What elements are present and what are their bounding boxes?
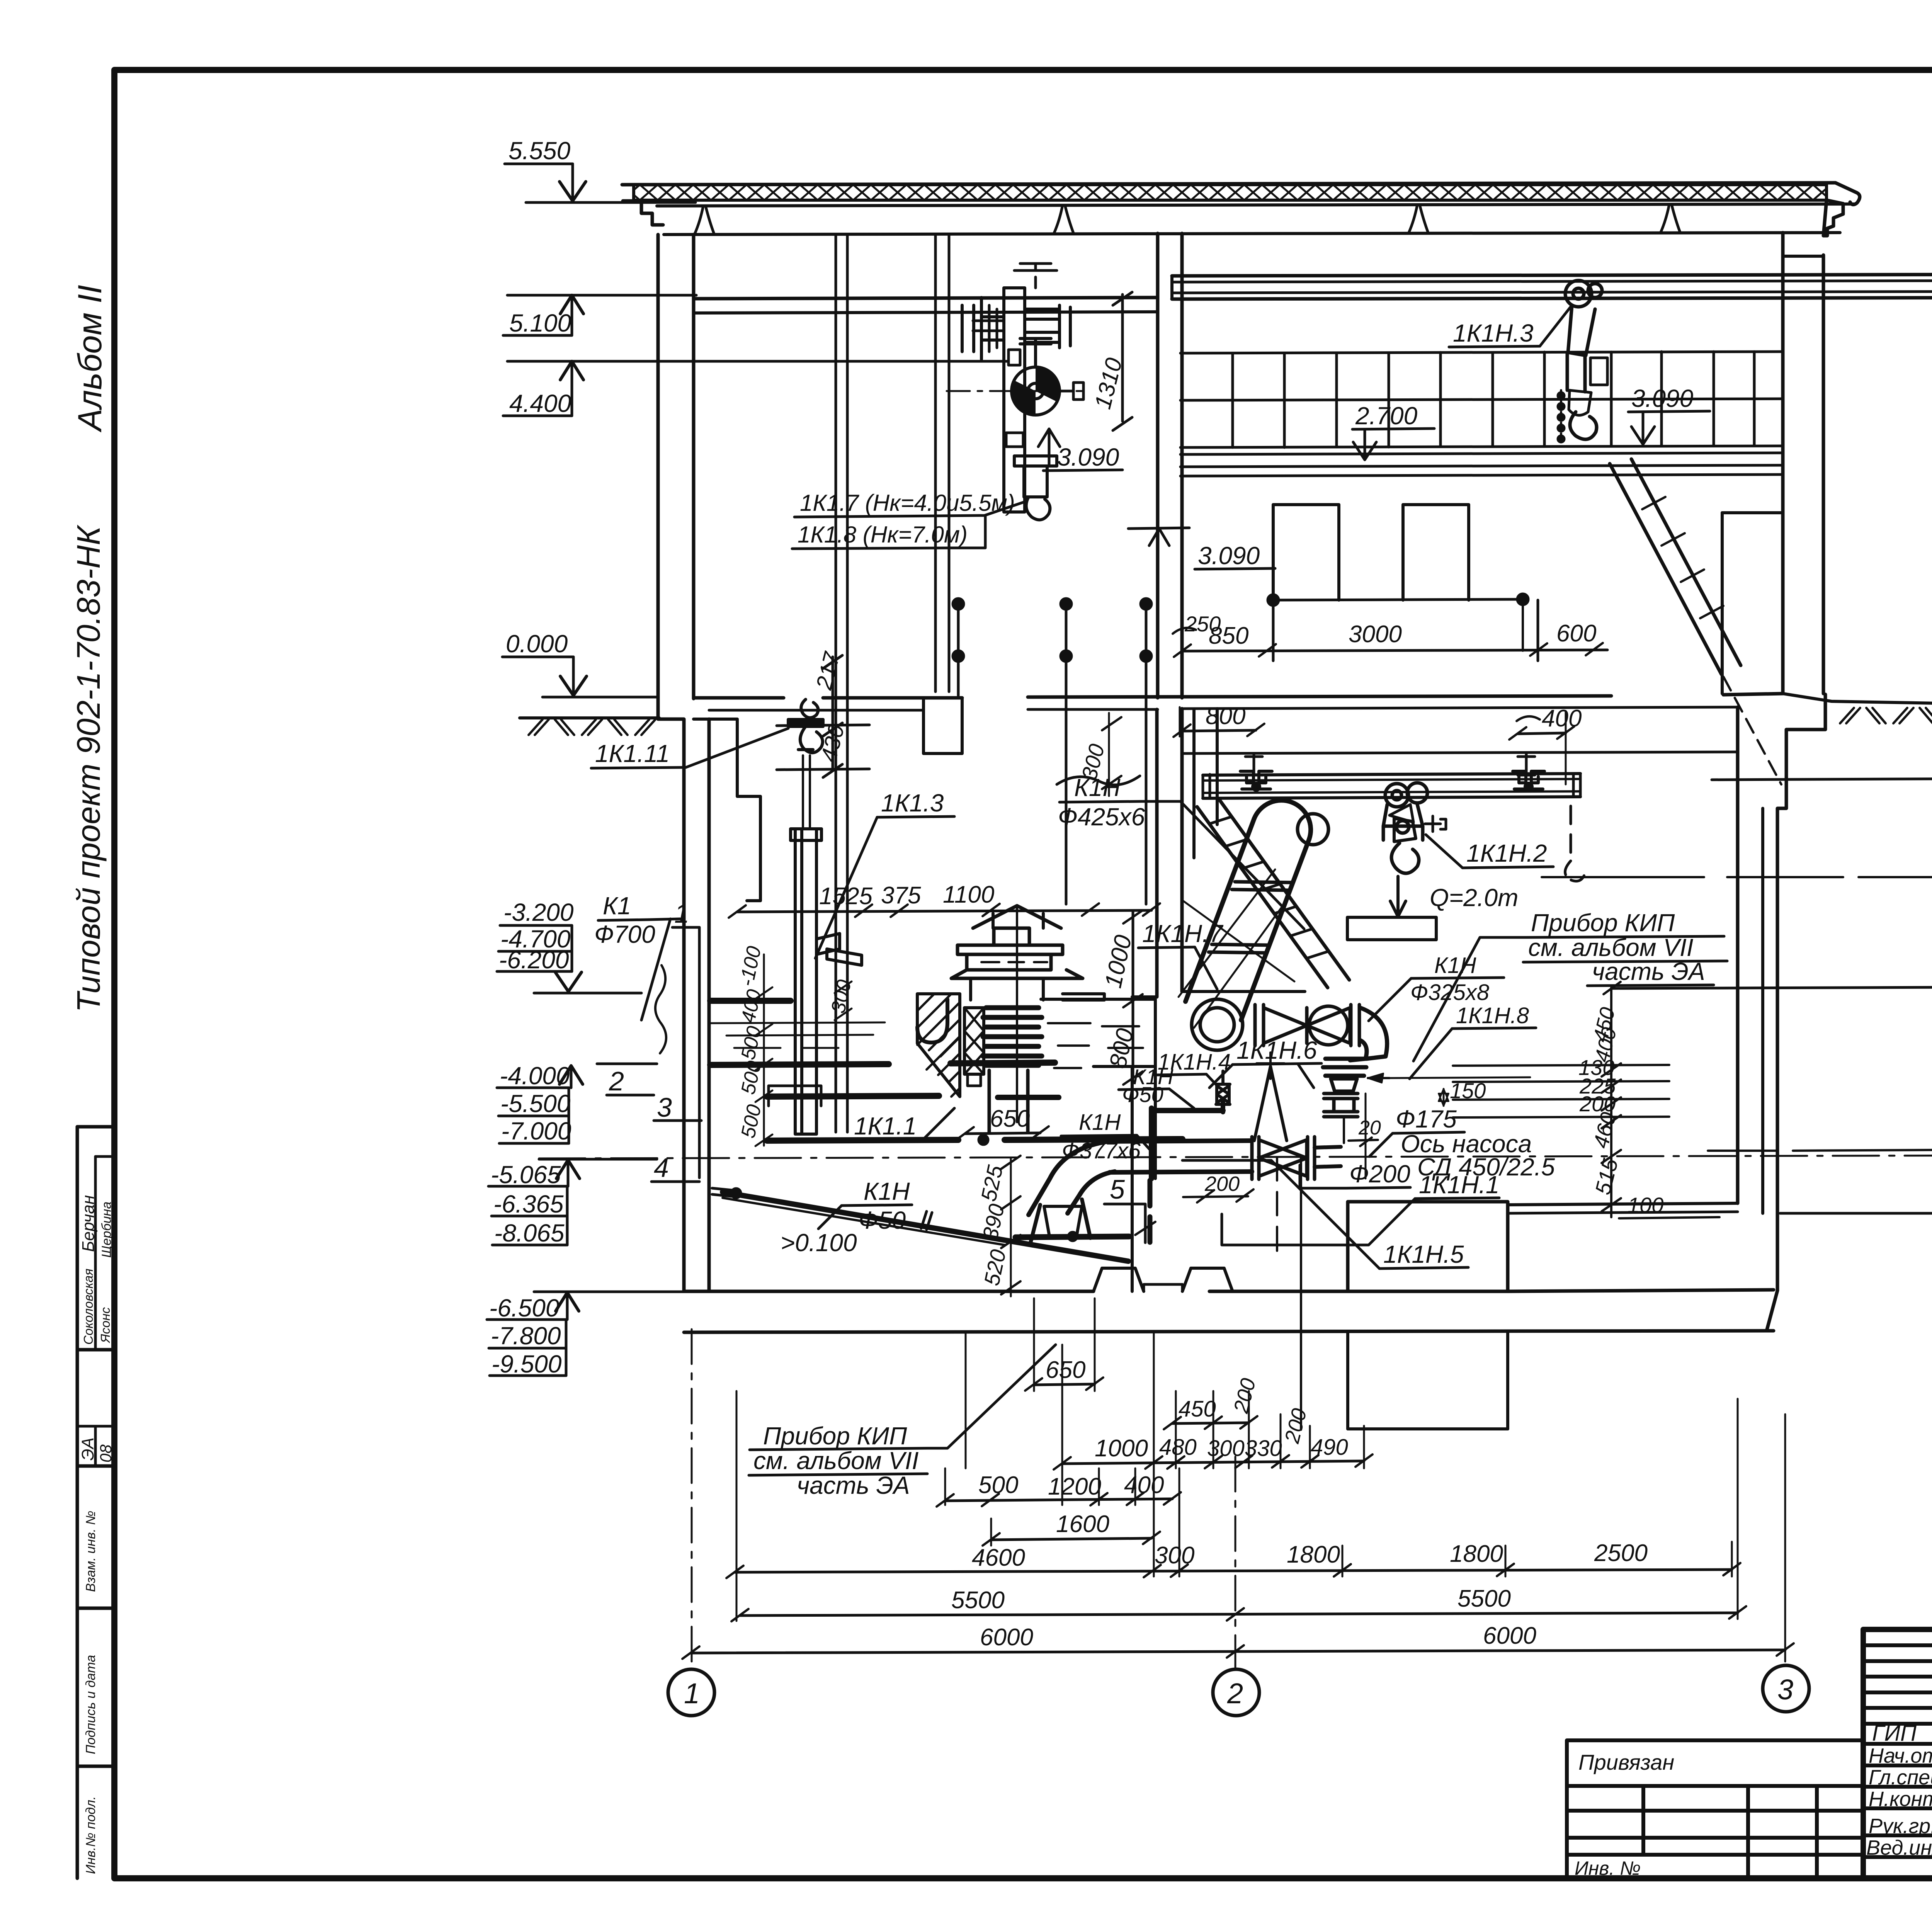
svg-text:2: 2 bbox=[1227, 1677, 1243, 1709]
svg-text:-6.365: -6.365 bbox=[493, 1190, 564, 1218]
svg-text:Берчан: Берчан bbox=[79, 1195, 98, 1252]
grate 1K1.3 bbox=[791, 755, 862, 1134]
column bubbles bbox=[668, 1665, 1809, 1716]
svg-text:см. альбом VII: см. альбом VII bbox=[753, 1447, 919, 1475]
1K1N.1 bbox=[1222, 1171, 1500, 1245]
dim 200 at drain corner bbox=[1183, 1172, 1253, 1202]
svg-text:Соколовская: Соколовская bbox=[81, 1269, 95, 1345]
1K1N.4 bbox=[1155, 1049, 1231, 1087]
interior wall steps left side below ground bbox=[694, 719, 760, 901]
svg-text:4: 4 bbox=[654, 1153, 669, 1183]
pump-room ceiling beam bbox=[1132, 992, 1305, 997]
svg-text:1000: 1000 bbox=[1100, 933, 1137, 990]
svg-text:Рук.гр.: Рук.гр. bbox=[1869, 1815, 1932, 1838]
chamber box right of valve with water dashes bbox=[1041, 999, 1155, 1068]
guy lines over pipe bbox=[1179, 869, 1294, 1028]
privyazan table bbox=[1567, 1740, 1863, 1879]
svg-text:-5.065: -5.065 bbox=[491, 1161, 561, 1189]
vertical level dim chain at grate bbox=[735, 944, 856, 1146]
svg-text:500: 500 bbox=[737, 1102, 766, 1140]
funnel cone on axis bbox=[1254, 1053, 1287, 1141]
svg-text:К1Н: К1Н bbox=[864, 1177, 910, 1205]
roof hatched band bbox=[634, 185, 1827, 200]
svg-text:20: 20 bbox=[1358, 1117, 1381, 1139]
1K1N.6 bbox=[1209, 1036, 1321, 1088]
K1N F425x6 bbox=[1057, 774, 1304, 929]
right eave step bbox=[1823, 200, 1843, 236]
svg-text:Ясонс: Ясонс bbox=[98, 1307, 112, 1344]
svg-text:2500: 2500 bbox=[1594, 1540, 1648, 1566]
svg-text:Ф700: Ф700 bbox=[594, 920, 655, 948]
wavy break line at wall bbox=[655, 965, 666, 1053]
dims 217 and 430 at hook bbox=[777, 649, 869, 777]
svg-text:390: 390 bbox=[978, 1202, 1009, 1242]
svg-text:1К1Н.5: 1К1Н.5 bbox=[1383, 1240, 1464, 1268]
svg-text:490: 490 bbox=[1311, 1435, 1348, 1460]
svg-text:Альбом II: Альбом II bbox=[71, 285, 109, 433]
svg-text:3: 3 bbox=[657, 1092, 672, 1122]
right wall bbox=[1781, 233, 1785, 694]
svg-text:1К1Н.2: 1К1Н.2 bbox=[1466, 839, 1547, 867]
5 marker bbox=[1104, 1174, 1155, 1243]
hook 1K1.11 above grate bbox=[788, 699, 823, 753]
svg-text:330: 330 bbox=[1245, 1436, 1282, 1461]
hanging anchor rods with dots bbox=[953, 599, 1151, 904]
svg-text:Q=2.0т: Q=2.0т bbox=[1430, 884, 1518, 912]
step under grate bbox=[769, 1086, 821, 1106]
right -0.850 bbox=[1712, 728, 1932, 784]
svg-text:-5.500: -5.500 bbox=[500, 1090, 571, 1117]
left stack -3.200 bbox=[497, 898, 641, 993]
sloped drain pipe K1N F50 bbox=[712, 1188, 1128, 1261]
svg-text:375: 375 bbox=[881, 882, 921, 909]
narrow rows bbox=[1863, 1643, 1932, 1647]
svg-text:К1Н: К1Н bbox=[1079, 1110, 1121, 1135]
level 5.100 bbox=[503, 295, 696, 337]
K1N F50 drain: L-shaped thick pipe bbox=[1151, 1108, 1223, 1113]
left stack -4.000 bbox=[497, 1062, 657, 1145]
svg-text:1800: 1800 bbox=[1450, 1541, 1503, 1567]
svg-text:200: 200 bbox=[1229, 1376, 1260, 1416]
svg-text:Ф425х6: Ф425х6 bbox=[1058, 803, 1145, 831]
svg-text:1К1Н.3: 1К1Н.3 bbox=[1453, 319, 1534, 347]
water level lines in channel bbox=[710, 1022, 885, 1023]
hoist 1K1N.3 drawing bbox=[1558, 281, 1607, 442]
svg-text:Щербина: Щербина bbox=[99, 1202, 114, 1258]
svg-text:Прибор КИП: Прибор КИП bbox=[763, 1422, 907, 1450]
left outer wall bbox=[658, 699, 684, 1291]
svg-text:ГИП: ГИП bbox=[1872, 1721, 1917, 1746]
channel slab edge right of valve bbox=[1063, 994, 1104, 1000]
svg-text:1К1Н.7: 1К1Н.7 bbox=[1142, 920, 1224, 947]
svg-text:5500: 5500 bbox=[951, 1587, 1005, 1614]
underground ceiling slab bottom bbox=[1182, 752, 1738, 753]
650 dim at pump left bbox=[957, 1105, 1049, 1139]
svg-text:1К1.1: 1К1.1 bbox=[854, 1112, 917, 1140]
role labels bbox=[1866, 1721, 1932, 1859]
floor line right of pedestal bbox=[1508, 1203, 1738, 1205]
level bars 2,3,4 bbox=[767, 1096, 939, 1097]
K1 F700 bbox=[594, 892, 680, 1020]
svg-text:2.700: 2.700 bbox=[1355, 402, 1418, 430]
suction valve on pump axis bbox=[1252, 1137, 1315, 1179]
svg-text:1800: 1800 bbox=[1287, 1541, 1340, 1568]
svg-text:650: 650 bbox=[1046, 1357, 1085, 1383]
K1 inlet pipe thick walls bbox=[710, 998, 791, 1004]
hanging rod pairs in left hall bbox=[835, 236, 837, 1132]
row 5500 5500 bbox=[731, 1585, 1746, 1621]
3.090 A (left) bbox=[1038, 429, 1122, 471]
K1N F50 left bbox=[818, 1177, 912, 1234]
row 650 bbox=[1025, 1357, 1103, 1391]
svg-text:6000: 6000 bbox=[980, 1624, 1033, 1651]
1K1N.7 bbox=[1138, 920, 1224, 989]
trolleys on underground monorail bbox=[1240, 753, 1544, 790]
stair diagonal bbox=[1610, 464, 1721, 674]
left eave step bbox=[623, 201, 663, 225]
svg-text:3.090: 3.090 bbox=[1198, 542, 1260, 570]
svg-text:480: 480 bbox=[1159, 1435, 1197, 1460]
svg-text:-100: -100 bbox=[735, 944, 765, 988]
bottom slab bbox=[684, 1290, 1094, 1293]
1K1N.2 bbox=[1426, 835, 1553, 868]
dim 3.090 under valve bbox=[1128, 528, 1189, 546]
pump SD450 at bottom bbox=[1015, 1141, 1129, 1244]
right wall of underground bbox=[1736, 707, 1740, 1203]
right -1.870 bbox=[1542, 824, 1932, 877]
svg-text:Гл.спец.: Гл.спец. bbox=[1869, 1766, 1932, 1789]
level 0.000 bbox=[502, 630, 657, 697]
svg-text:217: 217 bbox=[811, 649, 845, 692]
svg-text:5.100: 5.100 bbox=[509, 309, 571, 337]
1K1.7 / 1K1.8 bbox=[792, 490, 1023, 549]
svg-text:1К1.7 (Нк=4.0и5.5м): 1К1.7 (Нк=4.0и5.5м) bbox=[800, 490, 1015, 516]
1K1N.5 bbox=[1182, 1160, 1468, 1269]
grid dash-dot verticals bbox=[692, 1329, 1235, 1668]
svg-text:-6.500: -6.500 bbox=[489, 1294, 560, 1322]
3.090 C (right) bbox=[1628, 384, 1710, 444]
svg-text:3.090: 3.090 bbox=[1057, 443, 1119, 471]
svg-text:500: 500 bbox=[737, 1024, 766, 1061]
two door openings in back wall bbox=[1273, 505, 1339, 600]
svg-text:1: 1 bbox=[684, 1677, 700, 1709]
left stack -6.500 bbox=[487, 1292, 684, 1378]
svg-text:Инв. №: Инв. № bbox=[1575, 1857, 1641, 1879]
left hall beam bbox=[694, 298, 1158, 299]
svg-text:часть ЭА: часть ЭА bbox=[1592, 957, 1705, 985]
row 450 / 200rot bbox=[1164, 1376, 1260, 1429]
vertical dims 1000 800 near centre wall bbox=[1100, 910, 1143, 1085]
hatched wall wedge left bbox=[917, 994, 960, 1097]
svg-text:2: 2 bbox=[609, 1066, 624, 1096]
slab downstand at hatch opening bbox=[923, 698, 962, 753]
pump pedestal bbox=[1348, 1202, 1508, 1291]
Pribor KIP upper right bbox=[1413, 909, 1727, 1061]
svg-text:Подпись и дата: Подпись и дата bbox=[83, 1655, 98, 1754]
svg-text:430: 430 bbox=[816, 722, 849, 765]
svg-text:200: 200 bbox=[1280, 1406, 1311, 1446]
svg-text:525: 525 bbox=[976, 1163, 1007, 1203]
right stack -5.605 bbox=[1780, 1211, 1932, 1285]
discharge vertical pipe from pump to valve 1K1N.4 bbox=[1216, 1071, 1230, 1112]
svg-text:5500: 5500 bbox=[1458, 1585, 1511, 1612]
benching bumps bbox=[1094, 1268, 1144, 1291]
650 dim near 1K1.1 bbox=[0, 0, 2, 2]
svg-text:515: 515 bbox=[1590, 1156, 1623, 1197]
F175 bbox=[1369, 1105, 1464, 1156]
elbow down to 1K1N.8 bbox=[1350, 1008, 1387, 1060]
svg-text:Ф377х6: Ф377х6 bbox=[1062, 1138, 1141, 1163]
signature rows bbox=[1863, 1722, 1932, 1726]
1K1N.8 bbox=[1410, 1003, 1536, 1079]
right wall pilaster below windows bbox=[1721, 513, 1724, 694]
left wall bbox=[656, 235, 660, 699]
row 500 1200 400 bbox=[937, 1472, 1181, 1507]
svg-text:500: 500 bbox=[978, 1472, 1018, 1498]
phantom hook at right bbox=[1570, 806, 1572, 860]
level marker numbers 1-4 leaders bbox=[607, 898, 701, 1183]
svg-text:1: 1 bbox=[674, 898, 689, 929]
svg-text:1600: 1600 bbox=[1056, 1511, 1109, 1537]
svg-text:Инв.№ подл.: Инв.№ подл. bbox=[83, 1796, 98, 1874]
underground monorail beam (pump hall) bbox=[1203, 774, 1580, 775]
valve 1K1.7/1K1.8 assembly upper hall bbox=[947, 264, 1083, 520]
top dim row 250 850 3000 600 bbox=[1173, 600, 1607, 661]
ceiling slab bbox=[657, 204, 1855, 206]
svg-text:1200: 1200 bbox=[1048, 1473, 1101, 1500]
K1N F325x8 bbox=[1369, 953, 1504, 1021]
svg-text:Привязан: Привязан bbox=[1578, 1750, 1674, 1774]
svg-text:Ф50: Ф50 bbox=[859, 1206, 906, 1234]
monorail upper hall bbox=[1172, 274, 1932, 276]
svg-text:1К1.8 (Нк=7.0м): 1К1.8 (Нк=7.0м) bbox=[798, 522, 968, 548]
svg-text:08: 08 bbox=[97, 1444, 115, 1463]
dim 1310 bbox=[1090, 292, 1132, 430]
centre wall bbox=[1156, 233, 1160, 698]
svg-text:850: 850 bbox=[1209, 622, 1248, 649]
dim 300 under floor left bbox=[1077, 713, 1121, 796]
svg-text:4600: 4600 bbox=[972, 1544, 1025, 1571]
projection verticals bbox=[736, 1298, 1785, 1662]
svg-text:600: 600 bbox=[1556, 620, 1596, 647]
1K1.11 bbox=[591, 728, 788, 768]
window band right hall bbox=[1180, 352, 1783, 454]
svg-text:0.000: 0.000 bbox=[506, 630, 568, 658]
svg-text:450: 450 bbox=[1179, 1396, 1216, 1422]
svg-text:1100: 1100 bbox=[943, 881, 994, 908]
1K1.3 bbox=[815, 789, 954, 958]
slab V-joints bbox=[695, 206, 714, 234]
svg-text:1К1.11: 1К1.11 bbox=[595, 740, 670, 767]
1K1N.3 bbox=[1449, 305, 1572, 347]
svg-text:-3.200: -3.200 bbox=[503, 898, 574, 926]
spring screw element bbox=[964, 1008, 984, 1086]
centre dividing wall below ground bbox=[1155, 709, 1159, 997]
valve on stand over channel bbox=[951, 906, 1083, 1122]
svg-text:5.550: 5.550 bbox=[509, 137, 571, 165]
elbow from F175 valve into pump: right side assembly bbox=[1323, 1059, 1366, 1143]
svg-text:-7.800: -7.800 bbox=[491, 1322, 561, 1350]
svg-text:-9.500: -9.500 bbox=[492, 1350, 562, 1378]
svg-text:3000: 3000 bbox=[1349, 621, 1402, 648]
svg-text:Взам. инв. №: Взам. инв. № bbox=[83, 1511, 98, 1592]
svg-text:4.400: 4.400 bbox=[509, 389, 571, 417]
K1N F377x6 bbox=[1061, 1110, 1152, 1163]
bellows compensator bbox=[983, 1008, 1042, 1065]
svg-text:6000: 6000 bbox=[1483, 1622, 1536, 1649]
svg-text:Вед.инж.: Вед.инж. bbox=[1866, 1836, 1932, 1859]
svg-text:-6.200: -6.200 bbox=[499, 946, 569, 974]
svg-text:650: 650 bbox=[990, 1105, 1030, 1132]
svg-text:Ф175: Ф175 bbox=[1396, 1105, 1457, 1133]
svg-text:300: 300 bbox=[1155, 1542, 1194, 1569]
svg-text:400: 400 bbox=[1124, 1472, 1164, 1498]
svg-text:400: 400 bbox=[1542, 705, 1582, 732]
pump axis dash-dot bbox=[539, 1155, 1932, 1158]
row 1000 480 300 330 200 490 bbox=[1054, 1406, 1372, 1469]
left stack -5.065 bbox=[488, 1159, 657, 1247]
left strip cells bbox=[76, 1127, 79, 1878]
row 4600 300 1800 1800 2500 bbox=[726, 1540, 1740, 1578]
big diagonal pipe K1N F425x6 bbox=[1185, 800, 1311, 1020]
dim 800 under slab + 400 right bbox=[1173, 703, 1582, 784]
vertical dims 525 390 520 at pump suction bbox=[976, 1156, 1020, 1296]
dims 1525 375 1100 bbox=[729, 881, 1160, 918]
svg-text:Нач.отд.: Нач.отд. bbox=[1869, 1744, 1932, 1767]
right stack -4.990 bbox=[1708, 1069, 1932, 1155]
svg-text:-8.065: -8.065 bbox=[494, 1219, 565, 1247]
svg-text:-7.000: -7.000 bbox=[501, 1117, 571, 1145]
Pribor KIP lower bbox=[749, 1345, 1056, 1499]
F200 bbox=[1300, 1160, 1410, 1188]
svg-text:часть ЭА: часть ЭА bbox=[797, 1471, 910, 1499]
svg-text:400: 400 bbox=[737, 987, 766, 1025]
level 5.550 bbox=[505, 137, 696, 202]
svg-text:Типовой проект 902-1-70.83-НК: Типовой проект 902-1-70.83-НК bbox=[70, 524, 107, 1012]
svg-text:-4.000: -4.000 bbox=[500, 1062, 570, 1090]
row 6000 6000 bbox=[682, 1622, 1794, 1659]
suction pipe horizontals bbox=[1102, 1141, 1252, 1141]
svg-text:1К1Н.8: 1К1Н.8 bbox=[1456, 1003, 1529, 1028]
svg-text:300: 300 bbox=[1207, 1436, 1245, 1461]
pipe from volute to right: flanges and valve body bbox=[1255, 1005, 1359, 1046]
dim 20 left of pump bbox=[1349, 1094, 1381, 1179]
right small dims 130 225 200 / 460 515 100 bbox=[1453, 988, 1719, 1218]
ground floor slab bbox=[694, 696, 784, 700]
svg-text:Н.контр.: Н.контр. bbox=[1869, 1787, 1932, 1811]
svg-text:5: 5 bbox=[1110, 1174, 1125, 1204]
svg-text:К1: К1 bbox=[603, 892, 631, 920]
svg-text:>0.100: >0.100 bbox=[781, 1229, 857, 1257]
svg-text:Ф200: Ф200 bbox=[1349, 1160, 1410, 1188]
svg-text:520: 520 bbox=[979, 1247, 1010, 1287]
svg-text:ЭА: ЭА bbox=[78, 1437, 97, 1461]
svg-text:3: 3 bbox=[1777, 1673, 1793, 1706]
outdoor ground left bbox=[520, 716, 659, 719]
dim 150 at F175 valve bbox=[1368, 1073, 1530, 1106]
J hook in channel bbox=[917, 999, 947, 1043]
svg-text:800: 800 bbox=[1206, 703, 1245, 730]
staircase to pump room bbox=[1194, 709, 1217, 858]
svg-text:150: 150 bbox=[1450, 1078, 1486, 1103]
svg-text:3.090: 3.090 bbox=[1631, 384, 1694, 412]
svg-text:1К1Н.6: 1К1Н.6 bbox=[1236, 1036, 1317, 1064]
right stack -3.125 bbox=[1604, 899, 1932, 994]
svg-text:1К1.3: 1К1.3 bbox=[881, 789, 944, 817]
1K1.1 bbox=[850, 1108, 954, 1140]
outdoor ground right bbox=[1783, 694, 1932, 705]
svg-text:1К1Н.1: 1К1Н.1 bbox=[1419, 1171, 1500, 1199]
hoist 1K1N.2 under monorail bbox=[1383, 783, 1446, 873]
Q arrow bbox=[1390, 876, 1406, 917]
K1N F50 mid bbox=[1119, 1065, 1194, 1108]
sill band bbox=[1180, 465, 1783, 467]
svg-text:1000: 1000 bbox=[1095, 1435, 1148, 1462]
row 1600 bbox=[983, 1511, 1160, 1546]
svg-text:100: 100 bbox=[1628, 1193, 1663, 1217]
2.700 bbox=[1352, 402, 1434, 460]
svg-text:Ф50: Ф50 bbox=[1122, 1082, 1163, 1107]
level 4.400 bbox=[503, 361, 1009, 417]
svg-text:Прибор КИП: Прибор КИП bbox=[1531, 909, 1675, 937]
